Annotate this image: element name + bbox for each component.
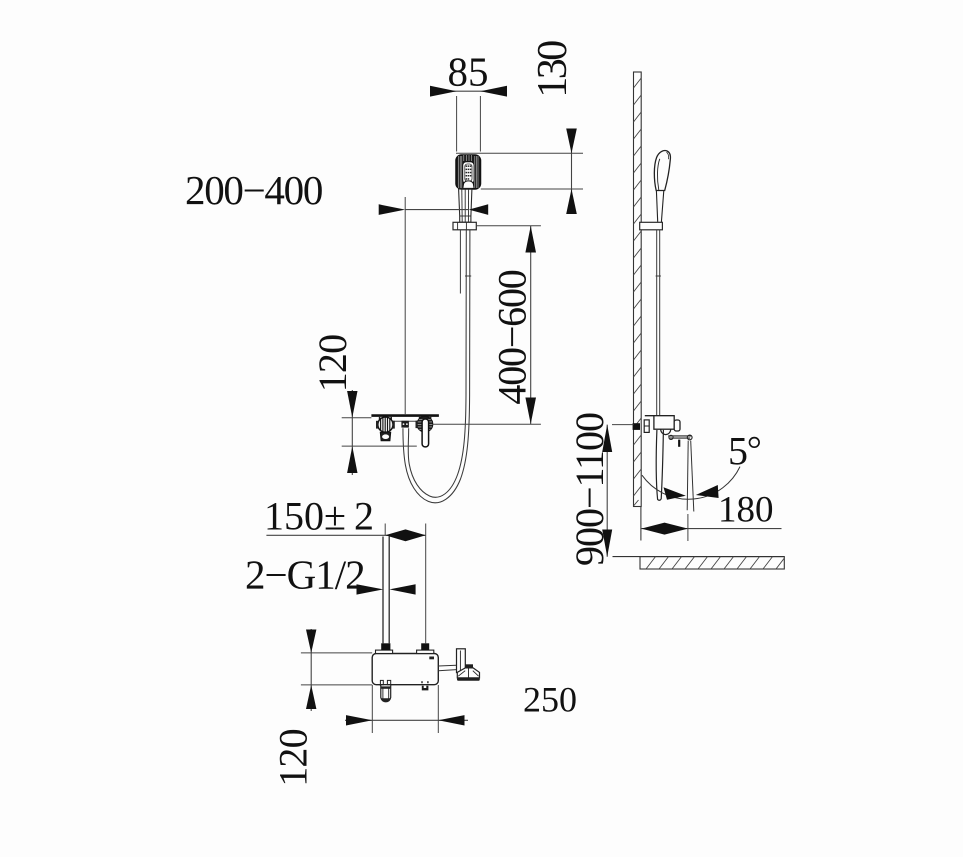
hand shower handle: [459, 189, 472, 222]
slide bar: [459, 230, 461, 294]
diverter knob (left, knurled): [378, 417, 393, 432]
pipe connector left (black): [381, 643, 390, 650]
valve body side main block: [654, 416, 674, 430]
mixer lever: [422, 419, 429, 447]
hose outlet connector: [401, 421, 409, 428]
dim 120 bottom ref bottom: [301, 684, 372, 686]
dim 180 extension: [687, 514, 689, 541]
dim 900-1100 line: [606, 425, 608, 557]
dim 250 line: [345, 719, 468, 721]
dim 85 arrow left: [430, 86, 457, 97]
dim 200-400 extension: [404, 197, 406, 415]
SIDE VIEW: [613, 72, 785, 569]
dim 150 ext left: [384, 524, 386, 536]
dim 400-600 ref top: [476, 225, 541, 227]
dim 150 ext right (long): [425, 524, 427, 644]
dim 900-1100 arrow bottom: [602, 530, 612, 557]
dim 120 left arrow bottom: [347, 446, 357, 473]
dim 900-1100 ref top: [612, 424, 634, 426]
mixer handle boss (right): [417, 416, 433, 432]
dim 250 arrow left: [346, 715, 372, 725]
floor hatching: [646, 557, 784, 569]
swing arc 5 deg: [642, 467, 740, 500]
dim 400-600 line: [530, 226, 532, 424]
svg-text:180: 180: [718, 490, 774, 531]
diverter side ears: [376, 421, 378, 429]
dim 130 arrow bottom: [566, 189, 577, 214]
supply pipes: [382, 537, 384, 644]
dim 120 left arrow top: [347, 391, 357, 418]
svg-text:2−G1/2: 2−G1/2: [245, 552, 365, 598]
dim 120 left ref bottom: [342, 445, 417, 447]
dim 130 line: [571, 129, 573, 215]
diverter pull cup: [380, 432, 390, 440]
svg-text:900−1100: 900−1100: [567, 413, 612, 566]
hand shower head body: [456, 155, 481, 189]
dim 400-600 arrow top: [525, 226, 536, 253]
degree circle: [750, 438, 760, 448]
arc arrowhead left: [664, 487, 686, 500]
svg-text:150± 2: 150± 2: [264, 494, 374, 539]
svg-text:200−400: 200−400: [185, 167, 322, 213]
dim 120 left ref top: [342, 417, 372, 419]
dim 120 left line: [351, 390, 353, 475]
dim 200-400 arrow right: [469, 204, 488, 215]
spout tip dark: [381, 698, 390, 702]
dim 900-1100 arrow top: [602, 425, 612, 452]
handle ear: [416, 421, 418, 428]
cradle cup under valve: [661, 429, 671, 434]
svg-text:400−600: 400−600: [490, 270, 535, 404]
inlet stub left: [376, 650, 393, 653]
dim 200-400 line: [405, 209, 468, 211]
svg-text:120: 120: [310, 335, 355, 393]
dim 250 arrow right: [438, 715, 464, 725]
svg-text:250: 250: [523, 680, 577, 720]
holder bar: [668, 435, 691, 437]
svg-text:85: 85: [448, 49, 489, 95]
logo mark on body: [429, 657, 434, 660]
valve handle side knob: [674, 420, 680, 431]
valve body side: top line: [645, 415, 674, 417]
wall face line below wall section: [640, 507, 642, 541]
hand shower side profile: [654, 151, 670, 191]
wall plate top bar: [371, 414, 439, 417]
svg-text:5: 5: [728, 429, 748, 474]
shower hose upper: [403, 230, 470, 503]
diverter knob mounts: [379, 417, 381, 421]
hand shower bottom arch: [463, 181, 474, 188]
dim 200-400 arrow left: [379, 204, 406, 215]
dim 250 ext left: [371, 685, 373, 733]
dim 2-G1/2 arrow right: [389, 584, 415, 594]
dim 120 bottom arrow bottom: [306, 685, 316, 709]
drain mark block: [422, 686, 429, 691]
dim 130 ref top: [456, 152, 583, 154]
hand shower handle side: [656, 191, 663, 222]
slider bracket side: [640, 222, 663, 230]
spout top view body: [381, 685, 391, 701]
valve inlet bracket on wall: [644, 420, 649, 433]
dim 2-G1/2 arrow left: [357, 584, 384, 594]
wall section: [634, 72, 642, 507]
spout stubs above body edge: [380, 680, 383, 685]
hose joint tick side: [656, 275, 661, 277]
floor line: [613, 556, 785, 558]
dim 180 line: [641, 528, 781, 530]
floor slab: [640, 557, 784, 569]
dim 400-600 arrow bottom: [525, 398, 536, 425]
inlet stub right: [417, 650, 434, 653]
spray nozzle dots: [466, 165, 472, 179]
spout collar dark: [381, 686, 390, 688]
svg-text:130: 130: [530, 41, 576, 98]
holder pin: [678, 440, 680, 447]
tub spout side: [656, 430, 663, 500]
pipe connector right (black): [421, 643, 429, 650]
wall hatching: [634, 78, 642, 506]
handle stem plate: [457, 649, 466, 673]
dim 130 ref bottom: [481, 188, 583, 190]
lever base band: [457, 678, 480, 681]
FRONT VIEW: [371, 155, 480, 503]
valve body top view: [372, 654, 438, 685]
dim 120 bottom line: [310, 629, 312, 711]
hose hanging straight (side): [656, 230, 658, 416]
swing lines: [687, 441, 688, 511]
lever head block: [465, 664, 473, 668]
dim 400-600 ref bottom: [433, 423, 541, 425]
dim 250 ext right: [437, 685, 439, 733]
DIMENSIONS: [185, 41, 782, 787]
dim 120 bottom ref top: [301, 652, 372, 654]
hand shower head stripe highlights: [459, 155, 478, 188]
dim 150 line: [266, 534, 425, 536]
plate underside line: [380, 420, 433, 422]
dim 85 extension lines: [456, 96, 458, 152]
hose joint tick: [465, 275, 471, 277]
hand shower spray plate: [463, 162, 474, 184]
dim 85 arrow right: [480, 86, 507, 97]
wall anchor black square: [633, 423, 640, 430]
slider bracket: [453, 222, 476, 230]
handle stem links: [438, 664, 456, 667]
arc arrowhead right: [696, 485, 719, 498]
svg-text:120: 120: [271, 729, 316, 787]
lever flare body: [457, 668, 479, 678]
drain mark ticks: [421, 681, 423, 683]
TOP VIEW (bottom of page): [372, 537, 480, 703]
dim 130 arrow top: [566, 129, 577, 154]
dim 120 bottom arrow top: [306, 630, 316, 653]
dim 85 line: [452, 90, 485, 92]
dim 180 double arrow: [641, 523, 688, 535]
dim 150 double arrow: [385, 529, 426, 541]
